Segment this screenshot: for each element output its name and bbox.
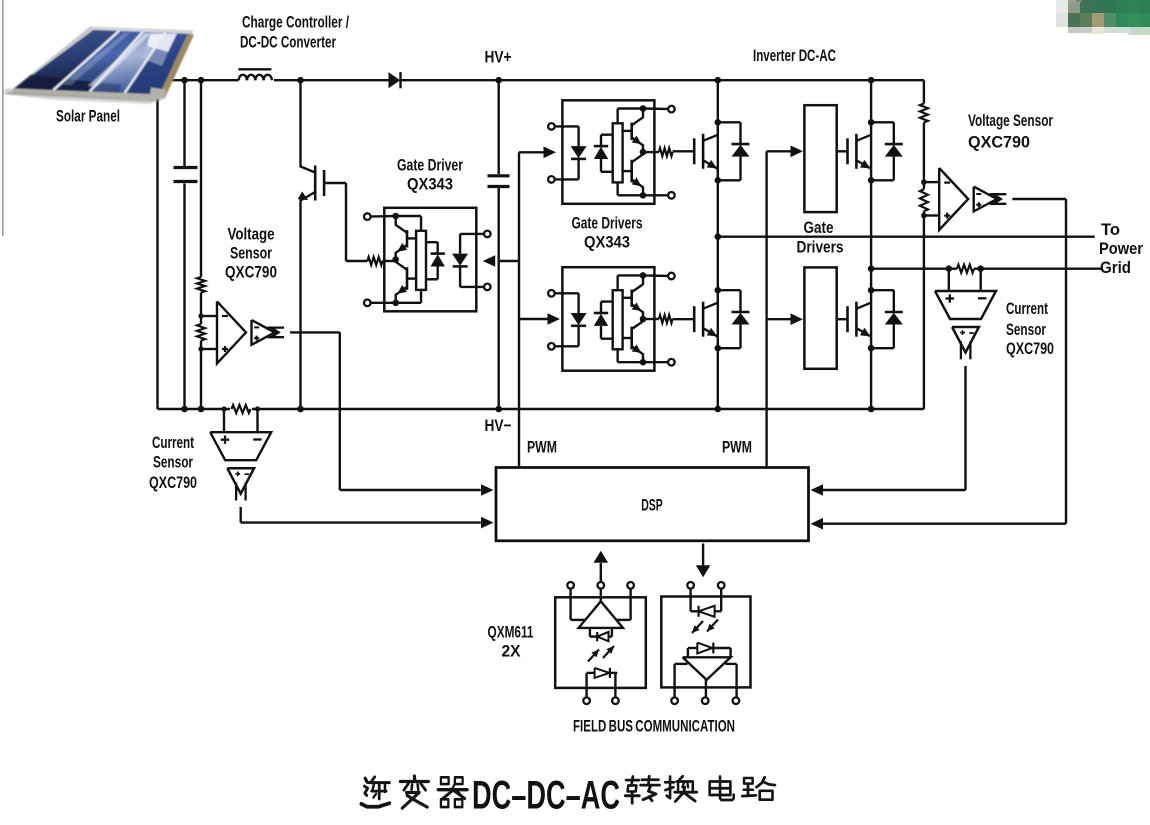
svg-text:DC–DC–AC: DC–DC–AC bbox=[472, 774, 620, 818]
svg-text:Sensor: Sensor bbox=[1006, 320, 1046, 339]
svg-text:Charge Controller /: Charge Controller / bbox=[242, 12, 349, 31]
svg-text:PWM: PWM bbox=[527, 438, 557, 457]
svg-text:Solar Panel: Solar Panel bbox=[56, 106, 120, 125]
svg-text:Voltage Sensor: Voltage Sensor bbox=[968, 111, 1053, 130]
svg-text:HV−: HV− bbox=[485, 416, 512, 435]
svg-text:DSP: DSP bbox=[641, 496, 663, 515]
svg-text:Sensor: Sensor bbox=[153, 452, 193, 471]
svg-text:Gate: Gate bbox=[804, 218, 834, 237]
svg-text:Drivers: Drivers bbox=[797, 238, 844, 257]
svg-text:Inverter DC-AC: Inverter DC-AC bbox=[753, 46, 836, 65]
svg-text:QXC790: QXC790 bbox=[968, 133, 1030, 152]
svg-text:PWM: PWM bbox=[722, 438, 752, 457]
svg-text:DC-DC Converter: DC-DC Converter bbox=[240, 32, 336, 51]
svg-text:HV+: HV+ bbox=[485, 48, 512, 67]
svg-text:Current: Current bbox=[152, 433, 194, 452]
svg-text:Voltage: Voltage bbox=[228, 225, 275, 244]
svg-text:QX343: QX343 bbox=[407, 175, 453, 194]
svg-text:QX343: QX343 bbox=[584, 233, 630, 252]
svg-text:QXC790: QXC790 bbox=[149, 473, 197, 492]
svg-text:QXC790: QXC790 bbox=[1006, 339, 1054, 358]
svg-text:QXM611: QXM611 bbox=[488, 623, 534, 642]
svg-text:FIELD BUS COMMUNICATION: FIELD BUS COMMUNICATION bbox=[573, 716, 735, 735]
svg-text:Gate Drivers: Gate Drivers bbox=[572, 214, 643, 233]
svg-text:Power: Power bbox=[1099, 239, 1143, 258]
svg-text:Sensor: Sensor bbox=[230, 244, 272, 263]
svg-text:Current: Current bbox=[1006, 299, 1048, 318]
svg-text:2X: 2X bbox=[502, 642, 522, 661]
svg-text:Grid: Grid bbox=[1100, 258, 1131, 277]
svg-text:To: To bbox=[1101, 220, 1120, 239]
svg-text:Gate Driver: Gate Driver bbox=[397, 156, 463, 175]
svg-text:QXC790: QXC790 bbox=[225, 263, 277, 282]
